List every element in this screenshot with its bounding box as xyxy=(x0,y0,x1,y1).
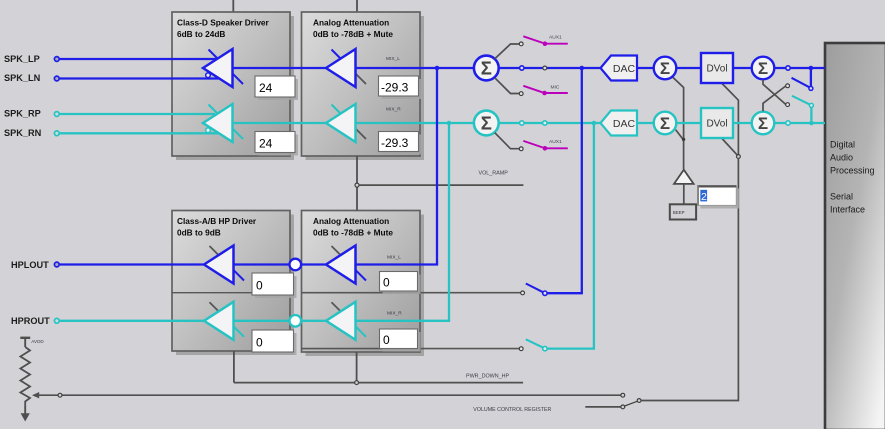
svg-text:BEEP: BEEP xyxy=(673,210,685,215)
node junction R trunk xyxy=(447,121,452,126)
block Class-A/B HP Driver xyxy=(172,211,294,356)
svg-text:DAC: DAC xyxy=(613,63,636,75)
svg-text:24: 24 xyxy=(259,81,273,95)
amplifier Class-D left xyxy=(203,49,243,87)
wire L row: DVol to sum xyxy=(733,67,752,69)
wire R row: sum to DAP block xyxy=(774,122,825,124)
node junction DVol control xyxy=(737,155,741,159)
svg-text:6dB to 24dB: 6dB to 24dB xyxy=(177,29,225,39)
switch terminal HP R xyxy=(519,347,523,351)
switch terminal HP L xyxy=(521,291,525,295)
svg-text:Σ: Σ xyxy=(481,113,492,134)
svg-text:MIC: MIC xyxy=(551,84,560,90)
svg-text:Audio: Audio xyxy=(830,153,853,163)
svg-text:SPK_RN: SPK_RN xyxy=(4,128,42,138)
svg-text:SPK_RP: SPK_RP xyxy=(4,109,41,119)
node HPR (large) xyxy=(290,315,302,327)
value -29.3 (MIX_L attenuation) xyxy=(379,76,422,99)
summing node L (output) xyxy=(752,57,775,80)
wire L trunk to HP mixer switch xyxy=(547,68,582,293)
wire PWR_DOWN_HP stub from HP attenuation box xyxy=(356,352,358,383)
wire beep amp from sum R xyxy=(676,130,683,139)
switch terminal MIC xyxy=(519,92,523,96)
node junction beep line xyxy=(682,138,685,141)
pin node HPROUT xyxy=(54,318,59,323)
DVol R xyxy=(701,108,733,138)
node HPL (large) xyxy=(290,259,302,271)
node junction R mixer trunk xyxy=(592,121,597,126)
switch lever AUX1 L (magenta) xyxy=(523,36,543,43)
wire volume wiper (long horizontal) xyxy=(39,394,621,396)
node ring R wire a xyxy=(520,121,524,125)
node ring L wire a xyxy=(520,66,524,70)
wire HPL driver to node xyxy=(233,263,289,265)
DAC L xyxy=(601,56,638,81)
block Analog Attenuation (HP path) xyxy=(302,211,425,357)
svg-text:0: 0 xyxy=(256,279,263,293)
svg-text:0dB to 9dB: 0dB to 9dB xyxy=(177,228,221,238)
svg-text:Interface: Interface xyxy=(830,205,865,215)
switch lever MIC (magenta) xyxy=(523,86,542,93)
amplifier MIX_R attenuator (HP) xyxy=(326,302,366,340)
pin node SPK_RN xyxy=(54,131,59,136)
wire stub swap switch R xyxy=(810,107,812,123)
svg-text:0: 0 xyxy=(383,333,390,347)
resistor AVDD divider (potentiometer) xyxy=(20,338,30,414)
wire L trunk to HP attenuator xyxy=(436,68,438,265)
wire L row: sum to attenuator xyxy=(357,67,474,69)
wire top stub into Class-D box xyxy=(232,0,234,12)
wire VOLUME CONTROL REGISTER stub xyxy=(585,406,621,408)
wiper arrowhead into resistor xyxy=(32,392,39,398)
node junction on VOL_RAMP branch xyxy=(355,183,359,187)
wire R trunk to HP attenuator xyxy=(448,123,450,321)
wire R row: sum to attenuator xyxy=(357,122,474,124)
switch terminal wiper end xyxy=(621,393,625,397)
node junction L mixer trunk xyxy=(580,66,585,71)
svg-text:24: 24 xyxy=(259,137,273,151)
wire switch feed MIC (elbow) xyxy=(495,78,520,94)
wire L row: sum to DVol xyxy=(676,67,701,69)
wire between attenuation boxes (vertical) xyxy=(356,156,358,211)
svg-text:0: 0 xyxy=(256,336,263,350)
svg-text:PWR_DOWN_HP: PWR_DOWN_HP xyxy=(466,374,510,380)
wire beep amp from sum L xyxy=(673,77,684,169)
wire HPROUT xyxy=(58,320,204,322)
pin node SPK_LP xyxy=(54,57,59,62)
wire L row: DAC to digital sum xyxy=(637,67,654,69)
DAC R xyxy=(601,111,638,136)
switch pivot swap L xyxy=(809,86,813,90)
summing node R (output) xyxy=(752,112,775,135)
pin node HPLOUT xyxy=(54,262,59,267)
node ring L wire b xyxy=(543,66,547,70)
svg-text:DVol: DVol xyxy=(706,119,727,130)
svg-text:SPK_LN: SPK_LN xyxy=(4,73,41,83)
switch pivot volume control xyxy=(637,399,641,403)
pin node SPK_RP xyxy=(54,112,59,117)
wire HPR driver to node xyxy=(233,320,289,322)
wire AUX1 L xyxy=(545,43,568,45)
svg-text:AUX1: AUX1 xyxy=(549,139,562,145)
value 0 (HP L gain) xyxy=(252,273,297,298)
wire SPK_LP xyxy=(58,58,216,60)
svg-text:0dB to -78dB + Mute: 0dB to -78dB + Mute xyxy=(313,29,393,39)
wire HPR attenuator input xyxy=(356,320,450,322)
wire R row: sum to DVol xyxy=(676,122,701,124)
block Digital Audio Processing / Serial Interface xyxy=(825,43,885,429)
amplifier MIX_L attenuator (speaker) xyxy=(326,49,366,87)
switch pivot MIC xyxy=(542,91,547,96)
svg-text:Digital: Digital xyxy=(830,140,855,150)
wire SPK_RN xyxy=(58,132,220,134)
value 24 (Class-D R gain) xyxy=(255,132,298,156)
svg-text:MIX_L: MIX_L xyxy=(386,56,400,62)
amplifier MIX_R attenuator (speaker) xyxy=(326,104,366,142)
wire cross-feed L to R (gray X) xyxy=(763,80,786,105)
switch pivot HP R (teal) xyxy=(543,346,547,350)
svg-text:0dB to -78dB + Mute: 0dB to -78dB + Mute xyxy=(313,228,393,238)
svg-text:AVDD: AVDD xyxy=(31,339,44,344)
switch lever volume control xyxy=(625,401,637,406)
svg-text:MIX_L: MIX_L xyxy=(387,255,401,261)
wire R row: DAC to sum xyxy=(499,122,601,124)
amplifier MIX_L attenuator (HP) xyxy=(326,246,366,284)
svg-text:SPK_LP: SPK_LP xyxy=(4,54,40,64)
node ring R wire b xyxy=(543,121,547,125)
ground arrow (bottom of divider) xyxy=(21,413,30,421)
node junction L trunk xyxy=(435,66,440,71)
svg-text:AUX1: AUX1 xyxy=(549,35,562,41)
block Analog Attenuation (speaker path) xyxy=(302,12,425,160)
switch terminal cross R xyxy=(786,84,790,88)
wire node to HPL attenuator xyxy=(301,263,325,265)
svg-text:HPLOUT: HPLOUT xyxy=(11,260,49,270)
wire beep buffer to BEEP generator xyxy=(683,184,685,204)
switch lever AUX1 R (magenta) xyxy=(523,141,543,148)
svg-text:Processing: Processing xyxy=(830,166,875,176)
wire SPK_LN xyxy=(58,77,220,79)
block Class-D Speaker Driver xyxy=(172,12,294,160)
node on wiper wire xyxy=(58,393,62,397)
node junction on PWR_DOWN_HP xyxy=(355,381,359,385)
node junction swap R xyxy=(809,121,814,126)
svg-text:-29.3: -29.3 xyxy=(381,136,409,150)
pin node SPK_LN xyxy=(54,76,59,81)
summing node R (digital) xyxy=(654,112,677,135)
wire switch feed AUX1 R (elbow) xyxy=(495,133,520,149)
wire HP mixer R input (to switch) xyxy=(302,348,520,350)
svg-text:HPROUT: HPROUT xyxy=(11,316,50,326)
wire PWR_DOWN_HP xyxy=(234,382,523,384)
wire top stub into Analog Attenuation box xyxy=(356,0,358,12)
svg-text:2: 2 xyxy=(701,191,707,203)
amplifier Class-A/B HP left xyxy=(204,246,244,284)
svg-text:Analog Attenuation: Analog Attenuation xyxy=(313,17,389,27)
switch pivot swap R xyxy=(809,103,813,107)
svg-text:Analog Attenuation: Analog Attenuation xyxy=(313,216,389,226)
node ring R output xyxy=(786,121,790,125)
switch terminal cross L xyxy=(786,103,790,107)
switch pivot AUX1 R xyxy=(543,146,548,151)
node ring L output xyxy=(786,66,790,70)
wire MIC xyxy=(545,92,568,94)
svg-text:Σ: Σ xyxy=(660,114,670,133)
wire AUX1 R xyxy=(545,147,568,149)
svg-text:DVol: DVol xyxy=(706,64,727,75)
wire divider/control Class-A/B box xyxy=(172,292,290,294)
switch lever HP L xyxy=(526,284,543,293)
value 24 (Class-D L gain) xyxy=(255,76,298,100)
DVol L xyxy=(701,53,733,83)
wire R row: DVol to sum xyxy=(733,122,752,124)
svg-text:MIX_R: MIX_R xyxy=(387,311,402,317)
amplifier Class-D right xyxy=(203,104,243,142)
wire L row: attenuator to driver xyxy=(233,67,327,69)
value field 2 (beep volume) xyxy=(698,186,740,209)
switch terminal AUX1 R xyxy=(519,147,523,151)
svg-text:Serial: Serial xyxy=(830,192,853,202)
value -29.3 (MIX_R attenuation) xyxy=(379,132,422,155)
svg-text:Σ: Σ xyxy=(481,58,492,79)
wire HP mixer L input (to switch) xyxy=(302,292,521,294)
svg-text:Class-D Speaker Driver: Class-D Speaker Driver xyxy=(177,17,270,27)
value 0 (HP R gain) xyxy=(252,330,297,355)
wire R trunk to HP mixer switch xyxy=(547,123,594,349)
wire SPK_RP xyxy=(58,113,215,115)
svg-text:-29.3: -29.3 xyxy=(381,81,409,95)
node junction swap L xyxy=(809,66,814,71)
svg-text:Σ: Σ xyxy=(758,114,768,133)
wire R row: attenuator to driver xyxy=(233,122,327,124)
summing node L (analog) xyxy=(474,56,499,81)
switch lever HP R xyxy=(526,339,543,347)
wire HPLOUT xyxy=(58,263,204,265)
wire volume control to DVol (up right side) xyxy=(641,84,738,401)
wire DVol R control diagonal xyxy=(722,139,737,155)
switch lever swap R xyxy=(792,96,810,105)
wire switch feed AUX1 L (elbow) xyxy=(495,44,520,59)
summing node R (analog) xyxy=(474,111,499,136)
svg-text:DAC: DAC xyxy=(613,118,636,130)
value 0 (HP MIX_L attenuation) xyxy=(380,272,421,295)
wire stub swap switch L xyxy=(810,68,812,86)
value 0 (HP MIX_R attenuation) xyxy=(380,329,421,352)
svg-text:Class-A/B HP Driver: Class-A/B HP Driver xyxy=(177,216,257,226)
wire L row: DAC to sum xyxy=(499,67,601,69)
switch terminal AUX1 L xyxy=(519,42,523,46)
summing node L (digital) xyxy=(654,57,677,80)
wire cross-feed R to L (gray X) xyxy=(763,86,786,111)
switch terminal register end xyxy=(621,405,625,409)
svg-text:VOLUME CONTROL REGISTER: VOLUME CONTROL REGISTER xyxy=(473,407,551,413)
wire VOL_RAMP xyxy=(359,184,523,186)
switch pivot HP L (blue) xyxy=(543,291,547,295)
wire PWR_DOWN_HP stub from Class-A/B box xyxy=(233,351,235,383)
svg-text:VOL_RAMP: VOL_RAMP xyxy=(479,171,509,177)
switch lever swap L xyxy=(792,78,810,87)
svg-text:Σ: Σ xyxy=(758,59,768,78)
svg-text:MIX_R: MIX_R xyxy=(386,107,401,113)
svg-text:Σ: Σ xyxy=(660,59,670,78)
amplifier Class-A/B HP right xyxy=(204,302,244,340)
switch pivot AUX1 L xyxy=(543,41,548,46)
wire R row: DAC to digital sum xyxy=(637,122,654,124)
wire HPL attenuator input xyxy=(356,263,438,265)
wire node to HPR attenuator xyxy=(301,320,325,322)
wire L row: sum to DAP block xyxy=(774,67,825,69)
svg-text:0: 0 xyxy=(383,276,390,290)
op-amp beep buffer xyxy=(674,170,694,184)
block BEEP generator xyxy=(670,204,696,219)
